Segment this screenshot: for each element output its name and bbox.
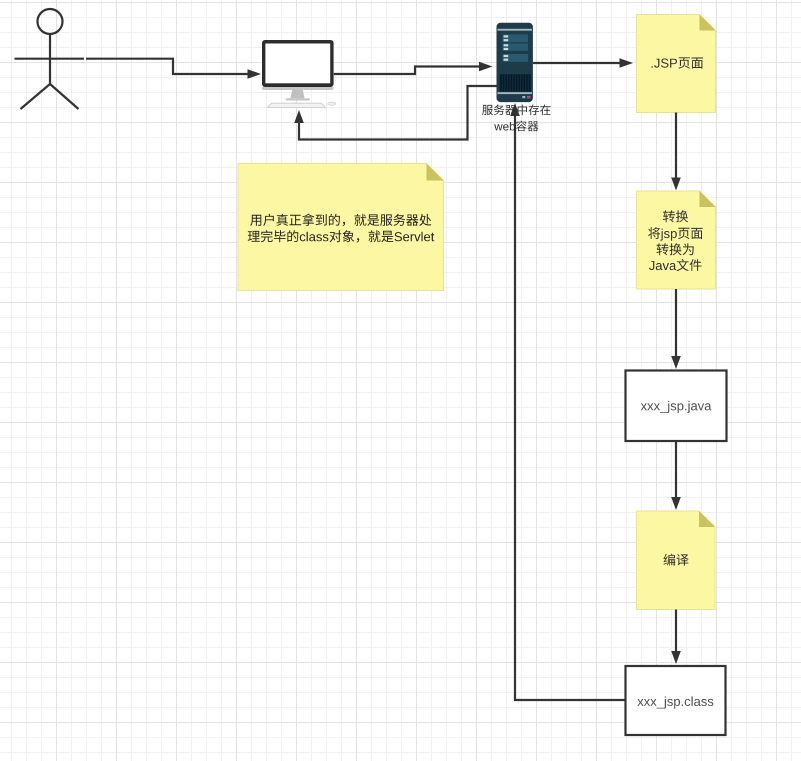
wire .JSP page note to 转换 note (671, 113, 681, 191)
wire 编译 note to xxx_jsp.class box (671, 610, 681, 665)
note 转换/将jsp页面/转换为/Java文件 (637, 191, 716, 289)
wire xxx_jsp.java box to 编译 note (671, 441, 681, 510)
wire server to .JSP page note (533, 58, 633, 68)
wire monitor to server (334, 62, 493, 74)
server tower (web container host) (497, 23, 533, 102)
box xxx_jsp.java (626, 371, 727, 442)
note .JSP页面 (637, 15, 716, 113)
wire server back to monitor (response, upward arrow) (294, 86, 497, 140)
note 用户真正拿到的 (big sticky) (238, 164, 444, 291)
wire actor to monitor (86, 59, 261, 79)
box xxx_jsp.class (626, 666, 726, 735)
actor (user stick figure) (15, 9, 85, 109)
monitor (user computer) (262, 40, 336, 108)
wire xxx_jsp.class back to server (upward arrow) (510, 103, 625, 700)
label 服务器中存在 web容器 (482, 104, 550, 131)
wire 转换 note to xxx_jsp.java box (671, 289, 681, 369)
note 编译 (637, 511, 716, 610)
